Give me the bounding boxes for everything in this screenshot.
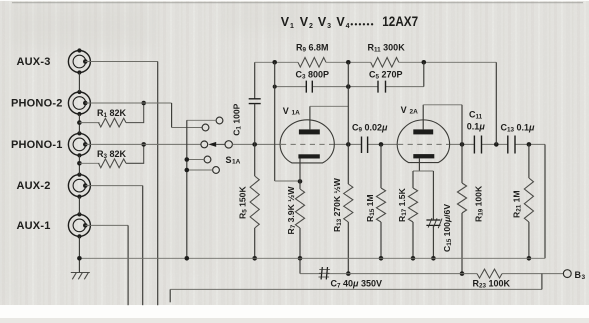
capacitor C9 0.02u — [352, 123, 388, 154]
svg-text:R19 100K: R19 100K — [474, 185, 485, 222]
wire feedback rail lower — [275, 86, 424, 88]
svg-text:12AX7: 12AX7 — [382, 14, 418, 29]
node V2A plate / R19 — [460, 142, 465, 147]
svg-text:4: 4 — [346, 23, 350, 30]
svg-text:AUX-3: AUX-3 — [17, 56, 51, 68]
terminal B3 — [563, 270, 585, 281]
resistor R7 3.9K — [286, 181, 305, 258]
svg-text:R21 1M: R21 1M — [512, 190, 523, 218]
resistor R5 150K — [238, 144, 260, 258]
svg-text:R17 1.5K: R17 1.5K — [397, 187, 408, 222]
node NFB top — [272, 60, 277, 65]
node ground rail switch — [185, 256, 190, 261]
node V1A cathode junction — [298, 179, 303, 184]
capacitor C13 0.1u — [501, 123, 536, 154]
jack shell ground chain — [77, 48, 81, 258]
wire AUX-1 down — [85, 225, 128, 305]
svg-text:C9 0.02μ: C9 0.02μ — [352, 123, 388, 134]
node R15 ground — [379, 256, 384, 261]
svg-text:3: 3 — [582, 274, 586, 281]
V1A plate — [299, 106, 348, 134]
resistor R9 6.8M — [296, 43, 329, 67]
wire PHONO-1 to S1A contact 3 — [85, 143, 201, 145]
input jack PHONO-2 — [11, 92, 90, 114]
capacitor C5 270P — [369, 69, 403, 92]
svg-text:R11 300K: R11 300K — [368, 43, 406, 54]
wire AUX-2 down — [85, 186, 142, 306]
svg-text:V: V — [283, 106, 289, 116]
wire grid line V1A (dashed inside tube) — [281, 143, 334, 145]
wire C13 to output corner — [515, 143, 545, 145]
svg-text:PHONO-1: PHONO-1 — [11, 139, 63, 151]
input jack AUX-2 — [17, 175, 91, 197]
V2A plate — [413, 105, 462, 145]
svg-text:B: B — [575, 270, 582, 280]
svg-text:R3 82K: R3 82K — [97, 149, 127, 160]
junction dot R1 ground — [77, 120, 82, 125]
svg-text:AUX-1: AUX-1 — [17, 220, 51, 232]
node R5 ground — [252, 256, 257, 261]
wire cathode rail drop — [299, 258, 301, 273]
switch S1A contact 5 — [187, 167, 220, 174]
switch S1A wiper — [208, 141, 232, 148]
wire PHONO-2 to S1A contact 2 — [85, 103, 202, 128]
node PHONO-1/R3 — [141, 142, 146, 147]
svg-text:C3 800P: C3 800P — [296, 69, 330, 80]
node R21 top — [527, 142, 532, 147]
input jack AUX-3 — [17, 51, 91, 73]
switch S1A contact 1 — [187, 117, 223, 124]
node R13 bus — [346, 271, 351, 276]
resistor R3 82K — [79, 144, 143, 167]
wire B+ bus — [300, 273, 563, 275]
resistor R19 100K — [457, 144, 484, 273]
input jack PHONO-1 — [11, 133, 90, 155]
wire output down to rail — [544, 144, 546, 258]
svg-text:R5 150K: R5 150K — [238, 186, 249, 219]
svg-text:V: V — [336, 15, 345, 29]
wire wiper to grid node — [232, 143, 280, 145]
svg-text:R15 1M: R15 1M — [365, 194, 376, 222]
svg-text:V: V — [318, 15, 327, 29]
switch S1A contact 3 — [201, 141, 208, 148]
capacitor C3 800P — [296, 69, 330, 92]
wire grid line V2A (dashed inside tube) — [398, 143, 449, 145]
wire lower rail right end stub — [423, 62, 425, 86]
wire switch common ground — [185, 120, 190, 258]
capacitor C11 0.1u — [467, 110, 486, 154]
wire AUX-3 to bus — [85, 62, 157, 306]
title 12AX7 — [281, 14, 418, 30]
svg-text:AUX-2: AUX-2 — [17, 180, 51, 192]
node PHONO-2/R1 — [141, 101, 146, 106]
capacitor C15 100u 6V — [426, 171, 453, 258]
wire C9 to V2A grid — [368, 143, 397, 145]
V1A cathode — [298, 154, 319, 181]
svg-text:2A: 2A — [410, 109, 419, 116]
svg-text:2: 2 — [309, 23, 313, 30]
svg-text:PHONO-2: PHONO-2 — [11, 98, 63, 110]
resistor R17 1.5K — [397, 171, 418, 258]
wire feedback rail top — [255, 61, 497, 63]
junction dot R3 ground — [77, 161, 82, 166]
node R19 bus — [460, 271, 465, 276]
node lower rail V1A plate — [346, 84, 351, 89]
svg-text:1A: 1A — [232, 159, 241, 166]
node V1A plate / C9 — [346, 142, 351, 147]
node ground rail jack — [77, 256, 82, 261]
resistor R11 300K — [368, 43, 406, 67]
svg-text:C5 270P: C5 270P — [369, 69, 403, 80]
svg-text:V: V — [300, 15, 309, 29]
svg-text:V: V — [281, 15, 290, 29]
switch S1A contact 4 — [187, 156, 211, 163]
svg-text:1: 1 — [290, 23, 294, 30]
wire NFB to cathode — [275, 62, 300, 181]
resistor R23 100K — [473, 269, 511, 289]
capacitor C1 100P — [232, 62, 261, 144]
node R15 grid leak — [379, 142, 384, 147]
node grid V1A (C1/R5) — [252, 142, 257, 147]
node top rail / V1A plate — [346, 60, 351, 65]
triode V2A envelope — [397, 105, 449, 163]
resistor R21 1M — [512, 144, 534, 258]
triode V1A envelope — [280, 106, 334, 163]
wire V2A plate node to C11 — [450, 143, 475, 145]
svg-text:R9 6.8M: R9 6.8M — [296, 43, 329, 54]
svg-text:C1 100P: C1 100P — [232, 103, 243, 135]
input jack AUX-1 — [17, 214, 91, 236]
node C11/C13 junction — [494, 142, 499, 147]
svg-text:S: S — [226, 155, 232, 165]
wire B+ branch bottom — [170, 274, 542, 303]
svg-text:C13 0.1μ: C13 0.1μ — [501, 123, 536, 134]
node lower rail NFB — [273, 85, 277, 89]
node top rail / V2A — [422, 60, 427, 65]
svg-text:3: 3 — [327, 23, 331, 30]
label S1A — [226, 155, 241, 166]
ground — [71, 258, 90, 279]
svg-text:V: V — [401, 105, 407, 115]
switch S1A contact 2 — [202, 124, 209, 131]
node R17 ground — [411, 256, 416, 261]
resistor R13 270K — [332, 144, 353, 273]
wire V1A plate node — [334, 143, 361, 145]
svg-text:1A: 1A — [292, 110, 301, 117]
wire top rail to C11 node — [495, 62, 497, 144]
wire V1A plate column — [347, 62, 349, 144]
node C15 ground — [431, 256, 436, 261]
resistor R15 1M — [365, 144, 386, 258]
V2A cathode — [413, 154, 434, 171]
wire ground rail — [79, 257, 545, 259]
resistor R1 82K — [79, 103, 143, 127]
wire C11 to C13 — [482, 143, 508, 145]
svg-text:R1 82K: R1 82K — [97, 108, 127, 119]
svg-text:0.1μ: 0.1μ — [467, 122, 486, 132]
node R21 ground — [527, 256, 532, 261]
node R7 ground — [298, 256, 303, 261]
capacitor C7 40u 350V — [319, 267, 383, 290]
svg-text:R23 100K: R23 100K — [473, 279, 511, 290]
